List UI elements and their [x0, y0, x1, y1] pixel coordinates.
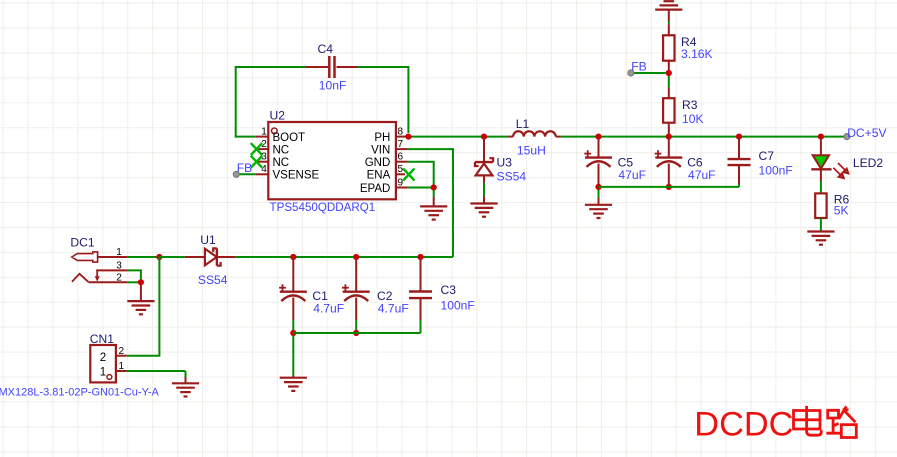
node FB (VSENSE) [233, 161, 256, 177]
wire GND pin [407, 162, 434, 188]
svg-text:10nF: 10nF [319, 79, 347, 93]
svg-text:VIN: VIN [371, 144, 390, 156]
wire rail L1 to DC+5V [561, 136, 847, 138]
junction C5 bottom [595, 184, 601, 190]
svg-text:3.16K: 3.16K [681, 47, 713, 61]
wire BOOT to C4 [236, 67, 306, 137]
svg-text:DCDC: DCDC [694, 406, 793, 444]
pin 3 NC [251, 152, 289, 170]
junction U3 cathode [481, 134, 487, 140]
junction C6 bottom [666, 184, 672, 190]
inductor L1 15uH [508, 117, 561, 157]
wire input ground rail [293, 332, 420, 334]
wire input rail [159, 256, 184, 258]
resistor R6 5K [815, 193, 849, 219]
svg-text:7: 7 [398, 139, 404, 150]
svg-text:BOOT: BOOT [273, 132, 306, 144]
node DC+5V [844, 126, 888, 140]
capacitor C7 100nF [728, 149, 793, 177]
svg-text:1: 1 [100, 366, 106, 378]
junction C1 top [290, 254, 296, 260]
op-amp U2 TPS5450QDDARQ1 [268, 109, 396, 215]
svg-text:1: 1 [116, 247, 122, 258]
ground (C1) [280, 378, 307, 391]
resistor R4 3.16K [663, 35, 713, 61]
svg-text:R3: R3 [682, 98, 698, 112]
wire U3 to ground [483, 183, 485, 197]
svg-text:3: 3 [116, 261, 122, 272]
junction [431, 184, 437, 190]
svg-text:FB: FB [631, 60, 646, 74]
capacitor C3 100nF [409, 283, 475, 312]
svg-text:SS54: SS54 [497, 170, 527, 184]
svg-text:4: 4 [261, 164, 267, 175]
wire output ground rail [599, 186, 740, 188]
wire CN1 pin2 [127, 257, 160, 356]
junction C2 bottom [353, 330, 359, 336]
junction C3 top [417, 254, 423, 260]
diode U1 SS54 [185, 233, 235, 287]
svg-text:CN1: CN1 [90, 332, 114, 346]
pin 1 [116, 370, 127, 372]
svg-text:9: 9 [398, 177, 404, 188]
capacitor C6 47uF [668, 138, 670, 158]
resistor R3 10K [663, 98, 703, 126]
wire FB to R3 [668, 76, 670, 88]
svg-text:U3: U3 [497, 155, 513, 169]
svg-text:SS54: SS54 [198, 273, 228, 287]
svg-text:15uH: 15uH [517, 143, 546, 157]
wire R4 to FB [668, 61, 670, 73]
wire CN1 pin1 [127, 370, 186, 372]
svg-text:DC+5V: DC+5V [847, 126, 887, 140]
title DCDC电路 [694, 406, 856, 444]
svg-text:C4: C4 [318, 42, 334, 56]
wire R3 bottom [668, 123, 670, 135]
connector CN1 [90, 332, 127, 382]
wire R6 to ground [820, 218, 822, 232]
junction DC1 out [156, 254, 162, 260]
capacitor C1 body [279, 284, 344, 315]
svg-text:4.7uF: 4.7uF [313, 302, 344, 316]
svg-text:1: 1 [261, 126, 267, 137]
svg-text:5K: 5K [834, 203, 849, 217]
svg-text:FB: FB [237, 161, 252, 175]
wire C1 bottom [292, 320, 294, 333]
wire C1 to ground [292, 336, 294, 376]
pin 4 VSENSE [256, 164, 320, 182]
capacitor C5 body [584, 150, 646, 182]
connector DC1 (barrel jack) [70, 235, 127, 283]
switch arrow [96, 271, 98, 277]
pin 9 EPAD [360, 177, 407, 195]
svg-text:TPS5450QDDARQ1: TPS5450QDDARQ1 [270, 201, 376, 214]
wire LED to R6 [820, 181, 822, 193]
ground (inverted, R4 top) [655, 1, 682, 9]
wire EPAD [407, 187, 434, 189]
svg-text:PH: PH [374, 132, 390, 144]
ground (DC1) [127, 301, 154, 314]
svg-text:100nF: 100nF [441, 298, 475, 312]
capacitor C2 4.7uF [355, 259, 357, 292]
junction PH [405, 134, 411, 140]
ground (CN1) [172, 383, 199, 396]
svg-text:100nF: 100nF [759, 163, 793, 177]
svg-text:U2: U2 [270, 109, 286, 123]
svg-text:MX128L-3.81-02P-GN01-Cu-Y-A: MX128L-3.81-02P-GN01-Cu-Y-A [0, 387, 160, 399]
pin 3 [96, 269, 128, 271]
ground (U3) [470, 204, 497, 217]
pin 1 BOOT [256, 126, 305, 144]
svg-text:NC: NC [273, 157, 290, 169]
wire to ground [433, 190, 435, 197]
capacitor C4 [306, 42, 358, 93]
pin 6 GND [365, 152, 407, 170]
svg-text:6: 6 [398, 152, 404, 163]
svg-text:2: 2 [116, 272, 122, 283]
svg-text:4.7uF: 4.7uF [378, 302, 409, 316]
svg-text:C7: C7 [759, 149, 775, 163]
junction C5 top [595, 134, 601, 140]
svg-text:ENA: ENA [367, 170, 391, 182]
wire C5 to ground [598, 190, 600, 199]
svg-text:GND: GND [365, 157, 391, 169]
svg-text:VSENSE: VSENSE [273, 170, 320, 182]
junction C2 top [353, 254, 359, 260]
wire C3 leads [420, 259, 422, 292]
svg-text:DC1: DC1 [70, 235, 94, 249]
node FB (divider) [628, 60, 666, 76]
wire DC1 pin3 [128, 270, 141, 282]
svg-text:EPAD: EPAD [360, 183, 390, 195]
svg-text:L1: L1 [516, 117, 530, 131]
pin 7 VIN [371, 139, 407, 157]
svg-text:8: 8 [398, 126, 404, 137]
diode U3 SS54 [475, 138, 526, 184]
LED LED2 [811, 138, 883, 181]
capacitor C1 4.7uF [292, 259, 294, 292]
pin 2 sleeve [72, 274, 88, 282]
junction LED [818, 134, 824, 140]
junction C6 top [666, 134, 672, 140]
svg-text:NC: NC [273, 144, 290, 156]
wire PH output rail [408, 136, 508, 138]
pin 2 NC [251, 139, 289, 157]
pin 1 [98, 256, 128, 258]
junction FB [666, 70, 672, 76]
wire C7 leads [738, 138, 740, 159]
svg-text:C3: C3 [441, 283, 457, 297]
pin 2 [116, 355, 127, 357]
svg-text:U1: U1 [200, 233, 216, 247]
wire to ground [140, 285, 142, 302]
ground (C5) [585, 205, 612, 218]
ground (R6) [807, 232, 834, 245]
svg-text:1: 1 [119, 361, 125, 372]
pin 5 ENA [367, 164, 415, 182]
junction DC1 gnd [138, 279, 144, 285]
junction C1 bottom [290, 330, 296, 336]
svg-text:2: 2 [100, 352, 106, 364]
pin 8 PH [374, 126, 406, 144]
wire R4 top [668, 10, 670, 22]
svg-text:2: 2 [119, 346, 125, 357]
wire VIN to input rail [407, 149, 453, 257]
svg-text:47uF: 47uF [618, 168, 646, 182]
svg-text:LED2: LED2 [853, 156, 884, 170]
capacitor C6 body [655, 150, 716, 182]
wire DC1 pin1 [128, 256, 160, 258]
wire C2 bottom [355, 320, 357, 333]
capacitor C5 47uF [598, 138, 600, 158]
svg-text:47uF: 47uF [688, 168, 716, 182]
wire DC1 pin2 [128, 281, 141, 283]
capacitor C2 body [342, 284, 409, 315]
svg-text:10K: 10K [682, 112, 704, 126]
junction C7 top [736, 134, 742, 140]
wire C4 to PH [358, 67, 409, 133]
ground (EPAD) [420, 206, 447, 219]
